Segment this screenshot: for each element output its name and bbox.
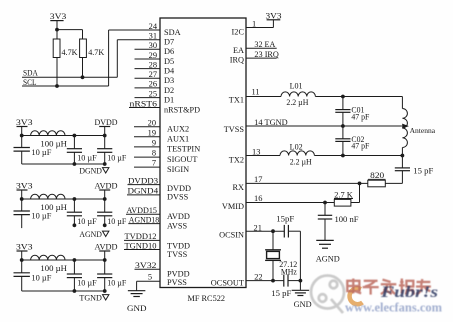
capacitor AVDD C-out 10 µF [104, 199, 106, 212]
svg-text:D2: D2 [164, 86, 174, 95]
pin 27 D3 stub [135, 77, 161, 79]
svg-text:7: 7 [152, 159, 156, 168]
svg-text:SIGOUT: SIGOUT [167, 155, 197, 164]
junction DVDD bottom right [103, 162, 107, 166]
svg-text:100 µH: 100 µH [40, 264, 67, 273]
svg-text:100 µH: 100 µH [40, 203, 67, 212]
ground AGND [316, 239, 334, 241]
wire SDA to pin 31 [22, 76, 117, 78]
resistor R4 2.7 K [334, 199, 351, 206]
svg-text:24: 24 [149, 22, 158, 31]
svg-text:AGND18: AGND18 [129, 215, 159, 224]
svg-text:29: 29 [149, 51, 157, 60]
junction AVDD rail right [103, 197, 107, 201]
svg-text:DGND: DGND [79, 166, 102, 175]
svg-text:28: 28 [149, 60, 157, 69]
capacitor TVDD C-out 10 µF [104, 260, 106, 274]
svg-text:47 pF: 47 pF [351, 142, 370, 151]
junction DVDD bottom mid [73, 162, 77, 166]
svg-text:SDA: SDA [164, 28, 181, 37]
svg-text:Fubr!s: Fubr!s [380, 284, 438, 301]
svg-text:AVDD: AVDD [95, 182, 118, 191]
junction SCL/R1 [55, 84, 59, 88]
svg-text:11: 11 [252, 87, 260, 96]
svg-text:VMID: VMID [222, 202, 244, 211]
svg-text:5: 5 [148, 273, 152, 282]
junction OCSIN/Y1 [271, 229, 275, 233]
svg-text:10 µF: 10 µF [77, 217, 97, 226]
svg-text:15pF: 15pF [276, 214, 295, 223]
watermark orange mark [350, 288, 363, 304]
svg-text:AUX1: AUX1 [167, 135, 189, 144]
pin 28 D4 stub [135, 68, 161, 70]
svg-text:www.elecfans.com: www.elecfans.com [345, 301, 442, 315]
svg-text:AVDD15: AVDD15 [127, 206, 158, 215]
svg-text:D7: D7 [164, 38, 174, 47]
svg-text:10 µF: 10 µF [31, 273, 51, 282]
svg-text:9: 9 [152, 139, 156, 148]
svg-text:3V3: 3V3 [16, 182, 33, 191]
svg-text:OCSIN: OCSIN [219, 231, 244, 240]
svg-text:TX2: TX2 [229, 155, 244, 164]
pin stub TVDD12 [124, 239, 160, 241]
pin 8 SIGOUT stub [134, 156, 160, 158]
svg-text:D6: D6 [164, 47, 174, 56]
capacitor DVDD C-in 10 µF [21, 136, 23, 148]
wire 820 to C3 [385, 182, 402, 184]
pin 32 EA stub [246, 47, 277, 49]
svg-text:16: 16 [254, 194, 262, 203]
pin stub DVDD3 [128, 184, 161, 186]
wire AVDD top rail [22, 198, 105, 200]
pin 30 D6 stub [135, 48, 161, 50]
wire SCL to pin 24 [22, 85, 109, 87]
svg-text:15 pF: 15 pF [413, 167, 434, 176]
svg-text:DVDD3: DVDD3 [128, 176, 158, 185]
svg-text:32 EA: 32 EA [254, 40, 275, 49]
svg-text:10 µF: 10 µF [77, 279, 97, 288]
svg-text:GND: GND [127, 303, 147, 313]
wire DVDD top rail [22, 135, 105, 137]
svg-text:10 µF: 10 µF [107, 279, 126, 288]
junction 3V3/R1 [55, 28, 59, 32]
capacitor C4 100 nF [324, 203, 326, 216]
wire VMID [246, 202, 334, 204]
wire L02 to antenna bottom [314, 155, 402, 157]
pin 9 TESTPIN stub [134, 146, 160, 148]
pin 26 D2 stub [135, 87, 161, 89]
svg-text:3V32: 3V32 [135, 261, 157, 270]
junction TX1/C01 [341, 95, 345, 99]
svg-text:10 µF: 10 µF [107, 153, 126, 162]
junction DVDD rail mid [73, 134, 77, 138]
pin stub DGND4 [127, 194, 160, 196]
junction RX/R4 [358, 182, 362, 186]
pin 6 nRST stub [129, 107, 160, 109]
capacitor AVDD C-mid 10 µF [73, 199, 75, 212]
wire DVDD bottom rail [22, 163, 105, 165]
resistor R3 820 [368, 180, 386, 187]
svg-text:SIGIN: SIGIN [167, 165, 189, 174]
inductor TVDD 100 µH [31, 255, 65, 260]
wire 3V3 node to R2 top [57, 29, 83, 31]
svg-text:AVSS: AVSS [167, 222, 188, 231]
svg-text:Antenna: Antenna [410, 126, 436, 135]
svg-text:SDA: SDA [23, 69, 38, 78]
capacitor C6 15 pF [283, 275, 285, 287]
svg-text:TVSS: TVSS [224, 125, 245, 134]
capacitor AVDD C-in 10 µF [21, 199, 23, 211]
inductor DVDD 100 µH [31, 131, 65, 136]
junction OCS GND [299, 279, 303, 283]
inductor L02 2.2 µH [280, 151, 314, 156]
svg-text:27: 27 [149, 70, 157, 79]
wire OCSIN [246, 230, 284, 232]
junction AVDD bottom right [103, 223, 107, 227]
svg-text:TX1: TX1 [229, 95, 244, 104]
pin stub AGND18 [128, 223, 160, 225]
wire R2 bottom to SDA [82, 58, 84, 78]
svg-text:20: 20 [148, 118, 156, 127]
svg-text:TVDD12: TVDD12 [125, 232, 157, 241]
pin stub 3V32 [135, 268, 161, 270]
svg-text:RX: RX [232, 183, 244, 192]
svg-text:PVDD: PVDD [167, 270, 190, 279]
svg-text:TVSS: TVSS [167, 250, 188, 259]
junction VMID/100nF [323, 201, 327, 205]
junction TVDD rail right [103, 258, 107, 262]
junction TVDD bottom right [103, 289, 107, 293]
svg-text:2.2 µH: 2.2 µH [286, 98, 308, 107]
wire TVDD bottom rail [22, 290, 105, 292]
svg-text:DVSS: DVSS [167, 192, 189, 201]
pin 23 IRQ stub [246, 57, 277, 59]
antenna feed arrow [402, 124, 409, 129]
capacitor DVDD C-out 10 µF [104, 136, 106, 149]
svg-text:26: 26 [149, 80, 157, 89]
svg-text:19: 19 [148, 128, 156, 137]
junction TX2/C02 [341, 154, 345, 158]
wire pin 1 to 3V3 [246, 27, 273, 29]
wire R1 bottom to SCL [56, 58, 58, 87]
svg-text:DGND4: DGND4 [128, 187, 160, 196]
wire TVDD top rail [22, 259, 105, 261]
watermark text 电子发烧友 [347, 279, 431, 295]
watermark logo circle [311, 276, 344, 314]
svg-text:TGND: TGND [79, 293, 102, 302]
antenna L1 coil [401, 97, 403, 109]
junction DVDD rail right [103, 134, 107, 138]
svg-text:3V3: 3V3 [16, 243, 33, 252]
svg-text:TGND10: TGND10 [125, 241, 157, 250]
svg-text:AVDD: AVDD [167, 212, 190, 221]
junction AVDD rail mid [73, 197, 77, 201]
junction OCSOUT/Y1 [271, 279, 275, 283]
capacitor C5 15pF [283, 225, 285, 238]
svg-text:TVDD: TVDD [167, 242, 190, 251]
svg-text:10 µF: 10 µF [31, 212, 51, 221]
svg-text:17: 17 [254, 175, 262, 184]
capacitor TVDD C-in 10 µF [21, 260, 23, 273]
svg-text:3V3: 3V3 [16, 118, 33, 127]
pin 29 D5 stub [135, 58, 161, 60]
svg-text:3V3: 3V3 [266, 11, 282, 20]
pin 14 TGND wire [246, 125, 402, 127]
capacitor C02 47 pF [342, 126, 344, 139]
svg-text:DVDD: DVDD [95, 118, 118, 127]
watermark url www.elecfans.com [345, 301, 442, 315]
wire OCSIN to GND leg [299, 231, 301, 280]
svg-text:TESTPIN: TESTPIN [167, 145, 200, 154]
svg-text:AGND: AGND [316, 253, 340, 263]
junction TVDD bottom mid [73, 289, 77, 293]
svg-text:PVSS: PVSS [167, 278, 187, 287]
svg-text:I2C: I2C [232, 28, 245, 37]
svg-text:14 TGND: 14 TGND [254, 118, 288, 127]
inductor AVDD 100 µH [31, 194, 65, 199]
capacitor DVDD C-mid 10 µF [73, 136, 75, 149]
svg-text:1: 1 [252, 19, 256, 28]
capacitor TVDD C-mid 10 µF [73, 260, 75, 274]
capacitor C01 47 pF [342, 97, 344, 110]
svg-text:D5: D5 [164, 57, 174, 66]
wire 2.7K to RX [351, 202, 360, 204]
wire TX2 to L02 [246, 155, 280, 157]
svg-text:2.7 K: 2.7 K [334, 190, 353, 199]
junction TVDD rail mid [73, 258, 77, 262]
svg-text:10 µF: 10 µF [77, 153, 97, 162]
svg-text:D4: D4 [164, 67, 175, 76]
svg-text:3V3: 3V3 [50, 12, 67, 21]
svg-text:OCSOUT: OCSOUT [211, 278, 244, 287]
svg-text:AVDD: AVDD [95, 243, 118, 252]
svg-text:8: 8 [152, 149, 156, 158]
svg-text:GND: GND [294, 299, 312, 309]
inductor L01 2.2 µH [281, 92, 315, 97]
pin stub AVDD15 [126, 213, 160, 215]
svg-text:25: 25 [149, 89, 157, 98]
pin stub 5 [137, 280, 160, 282]
svg-text:AUX2: AUX2 [167, 125, 189, 134]
svg-text:100 µH: 100 µH [40, 139, 67, 148]
junction AVDD bottom mid [73, 223, 77, 227]
junction TVDD rail left [20, 258, 24, 262]
svg-text:D1: D1 [164, 96, 174, 105]
wire R1 top stub [56, 30, 58, 39]
svg-text:2.2 µH: 2.2 µH [290, 157, 312, 166]
junction TX2/antenna [401, 154, 405, 158]
svg-text:nRST6: nRST6 [130, 99, 158, 108]
wire OCSOUT [246, 280, 284, 282]
svg-text:23 IRQ: 23 IRQ [254, 50, 279, 59]
svg-text:nRST&PD: nRST&PD [164, 105, 200, 114]
svg-text:IRQ: IRQ [230, 56, 244, 65]
svg-text:4.7K: 4.7K [88, 47, 105, 57]
svg-text:10 µF: 10 µF [31, 148, 51, 157]
pin stub TGND10 [124, 249, 160, 251]
svg-text:EA: EA [233, 46, 244, 55]
ground GND (PVSS) [136, 281, 138, 290]
watermark italic overlay [380, 284, 438, 301]
junction TGND/C01/C02 [341, 124, 345, 128]
ground GND (crystal) [299, 281, 301, 290]
svg-text:AGND: AGND [79, 230, 102, 239]
svg-text:47 pF: 47 pF [351, 113, 370, 122]
junction SDA/R2 [81, 75, 85, 79]
wire RX [246, 182, 368, 184]
svg-text:4.7K: 4.7K [62, 47, 79, 57]
svg-text:D3: D3 [164, 76, 174, 85]
resistor R2 4.7K [80, 39, 87, 58]
junction AVDD rail left [20, 197, 24, 201]
svg-text:100 nF: 100 nF [335, 215, 360, 224]
svg-text:30: 30 [149, 41, 157, 50]
svg-text:MF RC522: MF RC522 [188, 293, 226, 303]
svg-text:31: 31 [149, 32, 157, 41]
pin 19 AUX1 stub [134, 136, 160, 138]
pin 25 D1 stub [135, 97, 161, 99]
junction DVDD rail left [20, 134, 24, 138]
pin 20 AUX2 stub [134, 126, 160, 128]
svg-text:10 µF: 10 µF [107, 217, 126, 226]
crystal Y1 27.12 MHz [272, 231, 274, 249]
pin 7 SIGIN stub [134, 166, 160, 168]
op-amp U1 MF RC522 body [160, 18, 246, 288]
resistor R1 4.7K [53, 39, 60, 58]
wire L01 to antenna top [315, 96, 402, 98]
svg-text:15 pF: 15 pF [271, 289, 292, 298]
svg-text:L02: L02 [290, 142, 303, 151]
capacitor C3 15 pF [401, 156, 403, 168]
wire TX1 to L01 [246, 96, 281, 98]
svg-text:820: 820 [370, 171, 384, 180]
svg-text:L01: L01 [290, 81, 303, 90]
